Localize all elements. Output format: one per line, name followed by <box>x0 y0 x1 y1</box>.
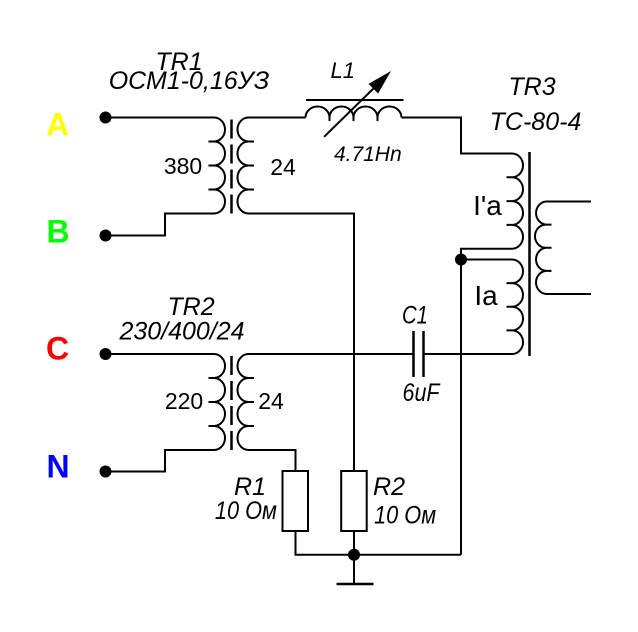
svg-text:24: 24 <box>270 154 296 180</box>
svg-text:A: A <box>46 107 69 143</box>
terminal node C <box>100 348 112 360</box>
wire TR3 node down to ground rail <box>460 260 462 555</box>
wire L1 to TR3 <box>402 118 513 154</box>
svg-text:24: 24 <box>258 388 284 414</box>
svg-text:10 Ом: 10 Ом <box>215 497 277 525</box>
wire TR3 secondary bottom lead <box>546 293 591 295</box>
wire TR3 secondary top lead <box>546 201 591 203</box>
ground node <box>348 549 360 561</box>
transformer TR3 winding Ia <box>512 260 523 355</box>
svg-text:6uF: 6uF <box>403 379 441 407</box>
wire R1 bottom to ground node <box>296 531 355 555</box>
wire I'a bottom to node <box>461 249 512 260</box>
transformer TR3 secondary winding <box>535 202 546 295</box>
inductor L1 core bar <box>306 99 404 101</box>
wire C to TR2 primary <box>106 353 215 355</box>
svg-text:C1: C1 <box>402 302 428 330</box>
wire ground node to right vertical <box>354 554 461 556</box>
svg-text:ТС-80-4: ТС-80-4 <box>490 108 582 136</box>
svg-text:220: 220 <box>165 388 203 414</box>
svg-text:B: B <box>46 214 69 250</box>
TR3 center-tap node <box>455 254 467 266</box>
svg-text:230/400/24: 230/400/24 <box>118 318 244 346</box>
wire TR1 secondary top to L1 <box>249 117 306 119</box>
svg-text:R2: R2 <box>373 473 405 501</box>
inductor L1 adjustment arrow <box>324 87 375 137</box>
svg-text:10 Ом: 10 Ом <box>374 502 436 530</box>
svg-text:I'a: I'a <box>473 190 502 221</box>
ground symbol <box>353 555 355 584</box>
transformer TR3 core <box>528 152 531 356</box>
wire TR2 primary bottom to node N <box>106 450 215 472</box>
inductor L1 arrowhead <box>369 71 392 94</box>
resistor R1 body <box>283 471 309 531</box>
svg-text:TR3: TR3 <box>508 73 555 101</box>
svg-text:N: N <box>46 449 69 485</box>
wire node to Ia top <box>461 259 512 261</box>
terminal node A <box>100 112 112 124</box>
terminal node N <box>100 466 112 478</box>
svg-text:380: 380 <box>164 153 202 179</box>
transformer TR2 primary winding 220 <box>214 354 225 450</box>
resistor R2 body <box>341 471 367 531</box>
svg-text:L1: L1 <box>331 58 355 83</box>
capacitor C1 plates <box>414 331 424 377</box>
wire A to TR1 primary <box>106 117 215 119</box>
wire Ia bottom to C1 right plate <box>424 353 513 355</box>
wire TR1 primary bottom to node B <box>106 214 215 236</box>
transformer TR1 secondary winding 24 <box>238 118 249 214</box>
wire R2 bottom to ground node <box>353 531 355 555</box>
svg-text:C: C <box>46 331 69 367</box>
transformer TR2 core <box>230 356 233 450</box>
transformer TR1 primary winding 380 <box>214 118 225 214</box>
inductor L1 winding <box>306 107 402 118</box>
terminal node B <box>100 230 112 242</box>
transformer TR1 core <box>230 120 233 214</box>
wire TR2 secondary top to C1 left plate <box>249 353 414 355</box>
svg-text:Ia: Ia <box>474 280 498 311</box>
transformer TR2 secondary winding 24 <box>238 354 249 450</box>
svg-text:ОСМ1-0,16УЗ: ОСМ1-0,16УЗ <box>109 67 270 95</box>
wire TR2 secondary bottom to R1 <box>249 450 296 471</box>
wire TR1 secondary bottom to R2 vertical <box>249 214 355 472</box>
transformer TR3 winding I'a <box>512 154 523 249</box>
svg-text:4.71Hn: 4.71Hn <box>334 143 402 166</box>
